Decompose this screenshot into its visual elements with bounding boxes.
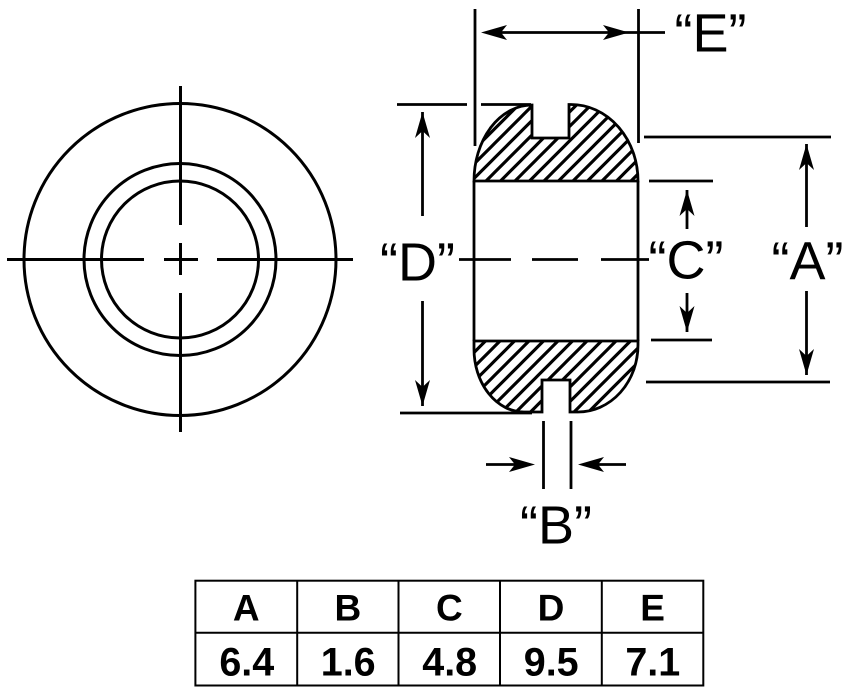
svg-text:D: D — [538, 588, 565, 629]
svg-text:1.6: 1.6 — [321, 641, 376, 685]
svg-text:6.4: 6.4 — [219, 641, 274, 685]
svg-text:“B”: “B” — [520, 496, 592, 556]
svg-text:4.8: 4.8 — [422, 641, 477, 685]
svg-text:“C”: “C” — [649, 231, 724, 291]
svg-text:“D”: “D” — [380, 233, 455, 293]
svg-text:“A”: “A” — [772, 232, 844, 292]
svg-text:B: B — [335, 588, 362, 629]
svg-text:“E”: “E” — [675, 4, 747, 64]
svg-text:E: E — [640, 588, 665, 629]
svg-text:7.1: 7.1 — [625, 641, 680, 685]
svg-text:9.5: 9.5 — [524, 641, 579, 685]
svg-text:C: C — [436, 588, 463, 629]
svg-text:A: A — [233, 588, 260, 629]
